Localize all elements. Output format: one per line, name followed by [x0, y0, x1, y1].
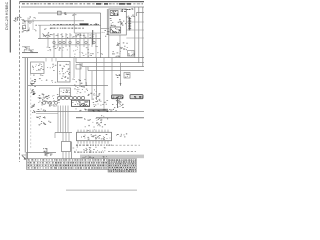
svg-text:DVC-2/9 HS/BBC: DVC-2/9 HS/BBC — [5, 1, 9, 30]
